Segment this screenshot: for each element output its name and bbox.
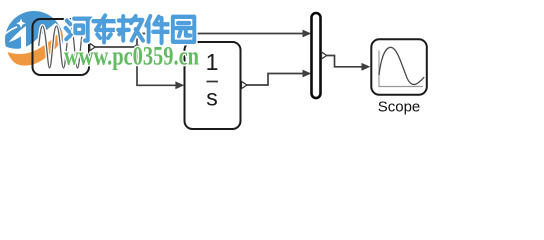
scope icon trace: [379, 47, 424, 84]
watermark text www.pc0359.cn: [64, 42, 199, 71]
integrator output port: [242, 81, 247, 88]
scope label: [378, 99, 421, 116]
scope icon axes: [379, 51, 423, 87]
junction node: [135, 45, 139, 49]
char 软: [118, 16, 143, 40]
mux block: [312, 13, 321, 98]
scope block: [371, 39, 427, 95]
wire to integrator input: [136, 81, 184, 89]
watermark logo blue globe: [5, 11, 63, 69]
integrator numerator label 1: [206, 49, 219, 75]
sine block output port: [90, 43, 95, 50]
wire from sine output to junction: [95, 46, 137, 48]
integrator block U:1/s: [185, 42, 241, 129]
integrator fraction bar: [207, 81, 219, 83]
sine wave source block: [33, 19, 90, 75]
watermark text 河东软件园 (drawn strokes): [66, 16, 195, 44]
wire to mux input 1: [136, 30, 311, 38]
char 园: [173, 17, 194, 42]
watermark logo blue rim sliver top-right: [46, 14, 63, 40]
char 东: [93, 16, 115, 43]
mux output port: [322, 52, 327, 59]
svg-text:Scope: Scope: [378, 99, 421, 116]
char 件: [146, 16, 170, 43]
watermark logo orange crescent: [8, 30, 63, 66]
char 河: [66, 19, 91, 41]
wire mux to scope: [327, 56, 371, 71]
svg-text:1: 1: [206, 49, 219, 75]
wire vertical branch segment: [136, 34, 138, 86]
watermark logo white swoosh cutout: [2, 19, 64, 76]
svg-text:www.pc0359.cn: www.pc0359.cn: [64, 42, 199, 71]
svg-text:s: s: [206, 85, 218, 111]
watermark logo star sparkles: [2, 19, 26, 38]
integrator denominator label s: [206, 85, 218, 111]
sine wave icon curve: [39, 26, 87, 68]
wire integrator to mux input 2: [247, 70, 311, 85]
watermark logo white numeral-1 arrow: [9, 26, 27, 50]
